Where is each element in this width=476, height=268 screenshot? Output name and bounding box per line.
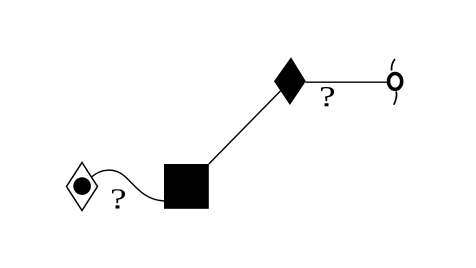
label: question mark near white diamond link	[112, 189, 125, 208]
node: white diamond outline	[67, 163, 98, 211]
node: black dot inside white diamond	[73, 177, 91, 195]
node: small circle	[389, 74, 402, 90]
wire: curved S link from white diamond to square	[92, 170, 165, 201]
mark: bottom squiggle below circle	[394, 92, 397, 105]
node: black diamond	[274, 57, 306, 105]
node: black square	[164, 164, 209, 209]
wire: horizontal line from black diamond to circle	[306, 81, 388, 83]
mark: top squiggle above circle	[392, 59, 395, 71]
label: question mark near black diamond link	[321, 87, 334, 106]
wire: diagonal line from square corner to black diamond	[209, 81, 290, 164]
